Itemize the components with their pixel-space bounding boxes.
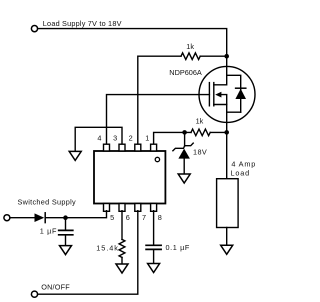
resistor R1 1k	[181, 53, 200, 60]
wire pin6 down	[121, 211, 123, 240]
load RL 4 Amp	[217, 179, 239, 228]
wire R2 to rail	[210, 131, 227, 133]
resistor R2 1k	[191, 129, 210, 136]
capacitor C1 1uF	[59, 218, 73, 246]
svg-text:NDP606A: NDP606A	[169, 68, 202, 77]
ground GND3	[116, 264, 128, 273]
wire source rail	[226, 112, 228, 132]
junction C1 node	[63, 215, 68, 220]
svg-text:18V: 18V	[193, 148, 207, 157]
svg-text:ON/OFF: ON/OFF	[41, 282, 70, 291]
svg-text:4: 4	[97, 134, 101, 143]
svg-text:3: 3	[113, 134, 117, 143]
pin stub 8	[151, 204, 157, 212]
svg-text:Load Supply 7V to 18V: Load Supply 7V to 18V	[43, 19, 122, 28]
svg-text:8: 8	[158, 213, 162, 222]
svg-text:Switched Supply: Switched Supply	[18, 197, 76, 206]
ground GND2	[178, 174, 190, 183]
wire pin8 down	[153, 211, 155, 246]
svg-text:7: 7	[142, 213, 146, 222]
pin stub 4	[104, 144, 110, 151]
svg-text:1: 1	[145, 134, 149, 143]
terminal J3 ON/OFF	[31, 291, 37, 297]
wire top rail	[38, 29, 227, 76]
wire pin2 up	[138, 56, 181, 144]
transistor Q1 NDP606A	[199, 66, 255, 122]
svg-text:2: 2	[129, 134, 133, 143]
pin stub 7	[135, 204, 141, 212]
wire pin7 to ON/OFF	[38, 211, 138, 295]
terminal J2 Switched Supply	[4, 215, 10, 221]
pin stub 6	[119, 204, 125, 212]
diode D1	[35, 213, 46, 223]
pin stub 3	[119, 144, 125, 151]
pin stub 2	[135, 144, 141, 151]
wire J2 to diode	[10, 217, 35, 219]
pin1 indicator dot	[155, 157, 159, 161]
terminal J1 Load Supply	[31, 26, 37, 32]
svg-text:0.1 µF: 0.1 µF	[166, 243, 190, 252]
ground GND1	[69, 151, 81, 160]
resistor R3 15.4k	[119, 239, 125, 257]
wire gate from pin4	[107, 95, 210, 145]
pin stub 5	[104, 204, 110, 212]
svg-text:15.4k: 15.4k	[96, 243, 119, 252]
junction source node	[224, 130, 229, 135]
IC U1 LM3524 body	[94, 151, 165, 204]
wire R3 to ground	[121, 257, 123, 264]
svg-text:6: 6	[126, 213, 130, 222]
svg-text:5: 5	[110, 213, 114, 222]
wire diode to pin5	[45, 211, 106, 218]
junction zener node	[182, 130, 187, 135]
svg-text:1k: 1k	[196, 117, 204, 126]
wire load to ground	[226, 228, 228, 246]
ground GND4	[148, 264, 160, 273]
svg-text:1 µF: 1 µF	[40, 227, 57, 236]
ground GND5	[60, 246, 72, 255]
junction drain node	[224, 54, 229, 59]
wire pin1 to 1k	[154, 132, 191, 144]
zener D2 18V	[173, 132, 193, 174]
capacitor C2 0.1uF	[146, 245, 161, 263]
wire R1 to rail	[200, 55, 227, 57]
pin stub 1	[151, 144, 157, 151]
wire rail to load	[226, 132, 228, 178]
wire pin3 to ground	[75, 127, 122, 151]
svg-text:1k: 1k	[186, 42, 194, 51]
ground GND6	[221, 245, 233, 254]
svg-text:4 Amp: 4 Amp	[231, 160, 256, 169]
svg-text:Load: Load	[231, 169, 250, 178]
